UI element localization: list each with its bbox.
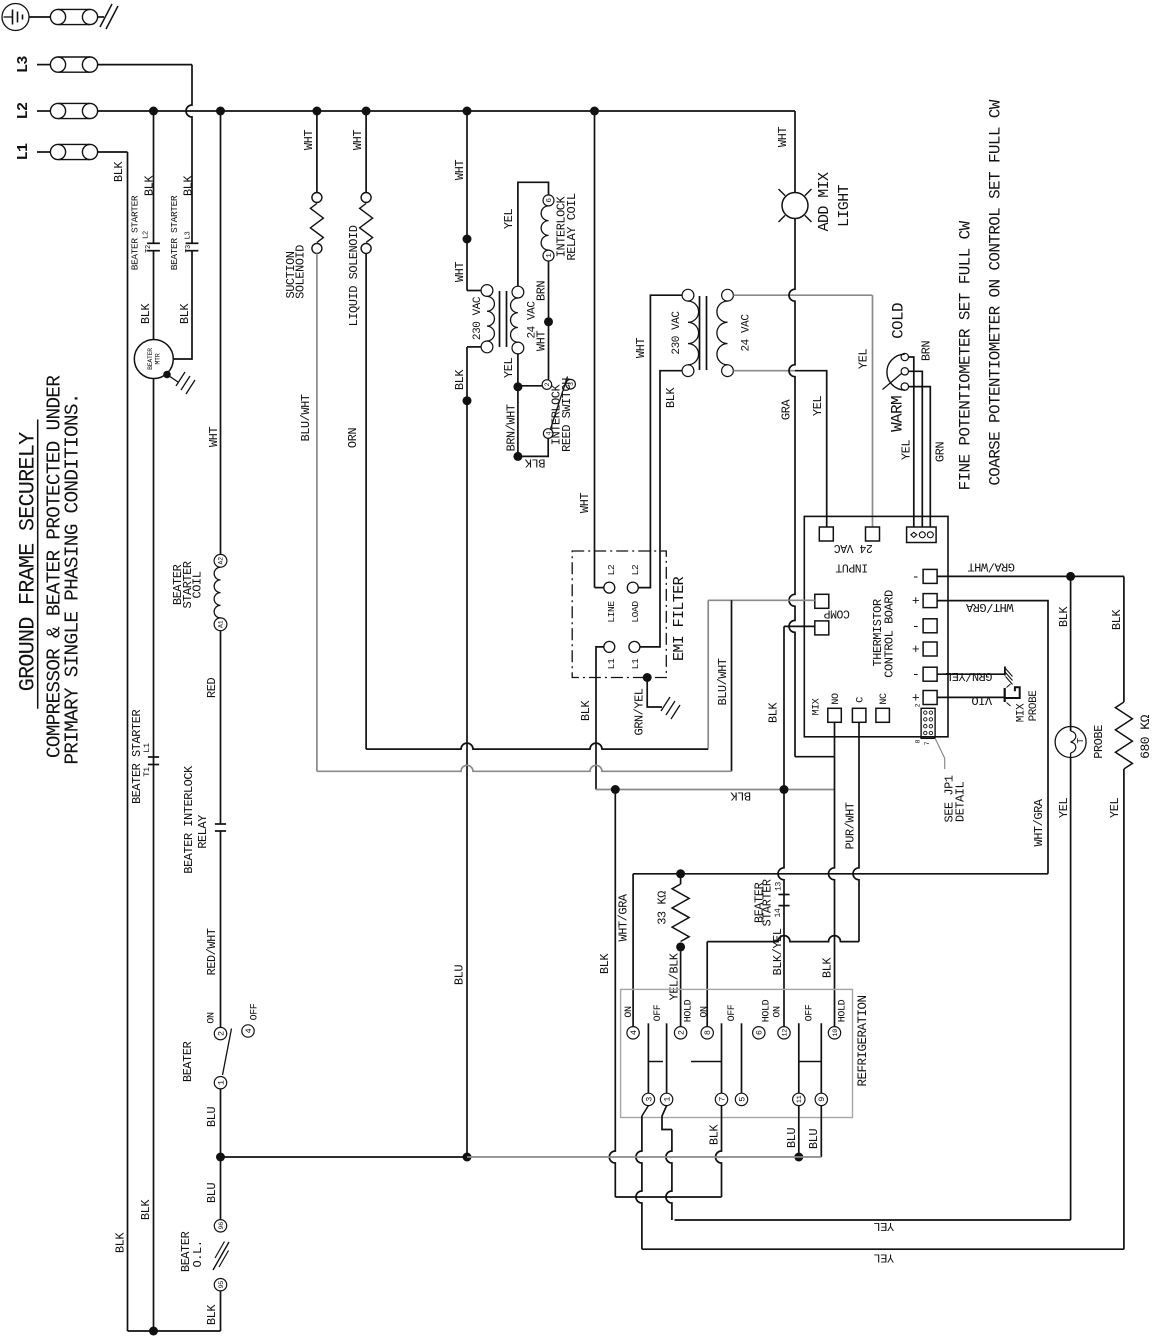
refrigeration sw3 contact bar	[800, 1061, 822, 1063]
refrigeration sw2 bottom terminal 7	[715, 1093, 727, 1105]
node T1 drop	[463, 235, 472, 244]
wire 9 to rail	[820, 1106, 822, 1157]
svg-text:BLU/WHT: BLU/WHT	[716, 658, 730, 705]
refrigeration switch enclosure	[621, 989, 853, 1117]
wire BLK/YEL to refrigeration 12	[778, 790, 784, 1027]
node bus-T1	[463, 107, 472, 116]
JP1 connector	[921, 708, 935, 738]
reed switch terminal 3	[566, 379, 576, 389]
wire terminal 1 drop to probe rail	[662, 1106, 672, 1130]
svg-text:BRN: BRN	[920, 341, 934, 361]
wire T2 secondary bottom GRA	[733, 370, 795, 372]
wire bus corner to add mix light	[794, 111, 796, 193]
svg-text:YEL: YEL	[502, 358, 516, 378]
wire switch drop	[609, 790, 615, 1198]
wire down to terminal 4	[632, 874, 634, 1027]
liquid solenoid terminal	[361, 193, 371, 203]
svg-text:WHT: WHT	[535, 331, 549, 351]
svg-text:-: -	[912, 667, 919, 682]
wire plus terminal WHT/GRA	[937, 601, 1048, 874]
svg-text:-: -	[912, 569, 919, 584]
svg-text:7: 7	[924, 741, 931, 745]
node rail to switch drop	[611, 785, 620, 794]
svg-text:GRN/YEL: GRN/YEL	[633, 688, 647, 735]
svg-text:14: 14	[774, 908, 783, 917]
wire 680K drop	[1123, 576, 1125, 702]
beater motor M1	[134, 340, 173, 379]
wire 7 to off rail	[716, 1106, 722, 1197]
svg-text:OFF: OFF	[653, 1004, 664, 1021]
pot terminal wiper	[901, 368, 908, 375]
svg-text:PROBE: PROBE	[1092, 725, 1106, 759]
board terminal OUT5 -	[923, 667, 937, 681]
transformer T2 secondary winding 24VAC	[717, 301, 728, 365]
svg-text:VIO: VIO	[972, 693, 992, 707]
transformer T1 primary terminal top	[481, 285, 493, 297]
fuse F1	[58, 143, 90, 145]
wire pot wiper	[909, 371, 923, 527]
wire 11 to rail	[798, 1106, 800, 1157]
wire into L2 LINE	[595, 587, 604, 589]
transformer T2 secondary terminal bottom	[722, 365, 734, 377]
svg-text:WHT: WHT	[776, 127, 790, 147]
beater overload terminal 95	[214, 1279, 226, 1291]
wire L2 to fuse	[37, 110, 51, 112]
wire suction solenoid BLU/WHT down	[316, 253, 318, 771]
refrigeration sw1 bottom terminal 3	[642, 1093, 654, 1105]
chassis ground at EMI	[661, 697, 670, 711]
suction solenoid terminal 2	[312, 243, 322, 253]
refrigeration sw3 pole wires	[798, 1023, 800, 1093]
svg-text:BLK: BLK	[139, 1199, 153, 1220]
beater overload element	[213, 1242, 229, 1270]
wire BLK to probe	[1070, 576, 1072, 728]
board terminal OUT6 +	[923, 691, 937, 705]
svg-text:WHT: WHT	[351, 130, 365, 150]
svg-text:BLK: BLK	[112, 161, 126, 182]
transformer T1 secondary terminal bottom	[512, 342, 524, 354]
refrigeration sw1 pole wires	[647, 1023, 649, 1093]
wire relay coil to reed switch	[548, 261, 550, 380]
wire BLU/WHT rail	[317, 765, 732, 771]
svg-text:96: 96	[218, 1222, 226, 1230]
wire motor to chassis	[167, 375, 178, 383]
svg-text:YEL: YEL	[1057, 798, 1071, 818]
refrigeration sw2 HOLD terminal 6	[753, 1027, 765, 1039]
svg-text:1: 1	[216, 1080, 226, 1085]
wire 33K to terminal 2	[680, 947, 682, 1027]
transformer T1 primary terminal bottom	[481, 341, 493, 353]
svg-text:BLU: BLU	[785, 1128, 799, 1148]
refrigeration sw2 ON terminal 8	[701, 1027, 713, 1039]
svg-text:BLK: BLK	[143, 175, 157, 196]
svg-text:+: +	[912, 642, 920, 657]
wire bus to transformer T1	[466, 111, 468, 291]
svg-text:A2: A2	[218, 557, 225, 565]
wire L1 to fuse	[37, 151, 51, 153]
svg-text:WARM: WARM	[888, 396, 906, 432]
refrigeration BLU rail left	[221, 1156, 468, 1158]
svg-text:BLK: BLK	[664, 387, 678, 408]
beater overload terminal 96	[214, 1220, 226, 1232]
svg-text:WHT: WHT	[578, 493, 592, 513]
JP1 leader line	[935, 738, 945, 769]
svg-text:T1: T1	[142, 767, 152, 777]
node reed 4 wire	[513, 452, 522, 461]
board terminal MIX NO	[828, 708, 842, 722]
svg-text:BEATER STARTER: BEATER STARTER	[130, 195, 141, 270]
wire bus to T2 contact	[153, 111, 155, 244]
wire node to overload	[220, 1157, 222, 1219]
fuse F3	[58, 56, 90, 58]
svg-text:BLK: BLK	[598, 953, 612, 974]
wire purwht rail to ON 8	[707, 936, 859, 942]
svg-text:L2: L2	[142, 231, 150, 239]
wire L1 BLK down left side	[127, 152, 129, 1331]
transformer T2 secondary terminal top	[722, 289, 734, 301]
wire T2 primary bottom to L1 LOAD	[640, 371, 682, 647]
wire 680K YEL rail	[642, 1248, 1124, 1250]
svg-text:L2: L2	[630, 564, 641, 575]
svg-text:PUR/WHT: PUR/WHT	[844, 802, 858, 849]
svg-text:10: 10	[832, 1029, 840, 1037]
svg-text:L1: L1	[142, 743, 152, 753]
svg-text:YEL: YEL	[811, 396, 825, 416]
transformer T1 secondary terminal top	[512, 286, 524, 298]
wire switch to node	[220, 1089, 222, 1157]
resistor 33K	[680, 874, 682, 884]
refrigeration sw3 bottom terminal 11	[793, 1093, 805, 1105]
liquid solenoid coil	[360, 204, 373, 243]
svg-text:COIL: COIL	[190, 571, 204, 598]
node 33K bottom	[676, 942, 685, 951]
refrigeration sw2 pole wires	[721, 1023, 723, 1093]
beater starter coil terminal A1	[214, 618, 227, 631]
beater switch terminal 1	[214, 1077, 226, 1089]
node rail 11	[794, 1153, 803, 1162]
wire T1 secondary top to relay coil	[518, 182, 549, 286]
svg-text:BEATER: BEATER	[181, 1042, 195, 1083]
thermistor control board outline	[804, 516, 948, 736]
svg-text:HOLD: HOLD	[683, 999, 694, 1022]
svg-text:33 KΩ: 33 KΩ	[656, 891, 670, 925]
wire plus VIO to mix probe	[937, 696, 1005, 698]
wire L1 fuse to corner	[98, 151, 128, 153]
liquid solenoid terminal 2	[361, 243, 371, 253]
wire T2 secondary top WHT to board	[733, 294, 872, 296]
svg-text:BLK: BLK	[205, 1304, 219, 1325]
svg-text:+: +	[912, 594, 920, 609]
refrigeration sw3 ON terminal 12	[778, 1027, 790, 1039]
svg-text:YEL: YEL	[1108, 798, 1122, 818]
suction solenoid terminal	[312, 193, 322, 203]
svg-text:BLU/WHT: BLU/WHT	[299, 394, 313, 441]
wire bus to liquid solenoid	[365, 111, 367, 193]
refrigeration sw1 bottom terminal 1	[660, 1093, 672, 1105]
svg-text:WHT/GRA: WHT/GRA	[965, 600, 1013, 614]
svg-text:+: +	[912, 691, 920, 706]
pot terminal cold	[901, 353, 908, 360]
chassis ground GRN/YEL	[1004, 667, 1006, 676]
svg-text:1: 1	[662, 1097, 672, 1102]
svg-text:24 VAC: 24 VAC	[740, 314, 752, 352]
svg-text:GROUND FRAME SECURELY: GROUND FRAME SECURELY	[15, 432, 40, 691]
beater starter coil winding	[214, 567, 220, 618]
svg-text:95: 95	[218, 1281, 226, 1289]
refrigeration sw3 HOLD terminal 10	[828, 1027, 840, 1039]
node beater-refrigeration	[216, 1153, 225, 1162]
node motor ground	[163, 371, 171, 379]
wire fuse to frame break	[98, 16, 104, 18]
EMI terminal L2 LOAD	[627, 582, 638, 593]
svg-text:BLK: BLK	[708, 1124, 722, 1145]
frame connection symbol	[100, 4, 112, 27]
node reed wire	[544, 317, 553, 326]
wire lamp down to mix contact	[789, 219, 795, 757]
svg-text:L1: L1	[15, 143, 32, 160]
svg-text:WHT/GRA: WHT/GRA	[617, 893, 631, 941]
beater starter contact T3	[186, 242, 199, 244]
wire A1 down to interlock relay	[220, 631, 222, 824]
svg-text:BLK: BLK	[182, 175, 196, 196]
wire probe YEL down	[1070, 758, 1072, 1221]
wire pot warm	[909, 387, 931, 527]
beater starter contact L1T1	[148, 756, 159, 758]
svg-text:BEATER: BEATER	[147, 348, 154, 370]
node bus-suction	[312, 107, 321, 116]
bottom rail wire	[128, 1330, 221, 1332]
svg-text:COMP: COMP	[824, 607, 850, 620]
wire BLK down to hold 10	[829, 757, 835, 1027]
chassis ground at motor	[176, 372, 185, 386]
svg-text:YEL/BLK: YEL/BLK	[668, 952, 682, 1000]
wire COMP2	[784, 625, 815, 627]
transformer T2 primary winding 230VAC	[688, 301, 699, 365]
wire ORN rail to comp	[366, 743, 708, 749]
wire bus to EMI L2 LINE	[594, 111, 596, 588]
wire relay to beater switch	[220, 831, 222, 1027]
svg-text:RED/WHT: RED/WHT	[205, 928, 219, 975]
svg-text:LIQUID SOLENOID: LIQUID SOLENOID	[347, 225, 361, 326]
node bus-T2drop	[149, 107, 158, 116]
svg-text:BLK: BLK	[178, 303, 192, 324]
svg-text:OFF: OFF	[804, 1004, 815, 1021]
wire probe YEL rail	[675, 1219, 1071, 1221]
L2 bus wire	[98, 110, 795, 112]
svg-text:WHT: WHT	[453, 160, 467, 180]
svg-text:C: C	[855, 697, 866, 703]
wire 680K YEL down	[1123, 769, 1125, 1249]
wire EMI ground stub GRN/YEL	[647, 678, 662, 708]
svg-text:4: 4	[244, 1028, 254, 1033]
svg-text:OFF: OFF	[727, 1004, 738, 1021]
wire to NO terminal corner	[795, 756, 835, 758]
svg-text:RELAY: RELAY	[196, 815, 210, 849]
svg-text:L3: L3	[15, 56, 32, 73]
svg-text:STARTER: STARTER	[761, 879, 775, 926]
svg-text:BLK: BLK	[1110, 609, 1124, 630]
wire T3 to motor	[173, 251, 192, 360]
svg-text:A1: A1	[218, 620, 225, 628]
EMI terminal L1 LINE	[604, 641, 615, 652]
svg-text:8: 8	[915, 739, 922, 743]
svg-text:YEL: YEL	[502, 209, 516, 229]
svg-text:BLK: BLK	[453, 369, 467, 390]
node probe net	[1066, 572, 1075, 581]
refrigeration sw2 bottom terminal 5	[735, 1093, 747, 1105]
EMI terminal L2 LINE	[604, 582, 615, 593]
transformer T2 primary terminal top	[682, 289, 694, 301]
refrigeration sw1 contact bar	[648, 1061, 663, 1063]
beater starter coil terminal A2	[214, 554, 227, 567]
wire terminal 3 to YEL riser	[642, 1106, 649, 1116]
svg-text:BLK: BLK	[139, 303, 153, 324]
board terminal OUT1 -	[923, 569, 937, 583]
svg-text:LOAD: LOAD	[630, 601, 641, 623]
wire up to NO terminal	[834, 722, 836, 757]
svg-text:BRN/WHT: BRN/WHT	[505, 404, 519, 451]
board terminal MIX C	[852, 708, 866, 722]
svg-text:LIGHT: LIGHT	[836, 184, 853, 227]
wire down to 24VAC input	[872, 295, 874, 527]
svg-text:YEL: YEL	[900, 440, 914, 460]
svg-text:5: 5	[737, 1097, 747, 1102]
node BLU refrigeration rail	[463, 1153, 472, 1162]
board terminal MIX NC	[876, 708, 890, 722]
svg-text:DETAIL: DETAIL	[954, 782, 968, 823]
wire node to reed 2	[518, 385, 542, 387]
svg-text:BLU: BLU	[453, 965, 467, 985]
mix probe element	[1004, 688, 1006, 702]
svg-text:REED SWITCH: REED SWITCH	[560, 378, 574, 452]
wire L3 drop with bus hop	[186, 65, 192, 244]
svg-text:L2: L2	[606, 564, 617, 575]
svg-text:WHT: WHT	[302, 130, 316, 150]
svg-text:SOLENOID: SOLENOID	[294, 245, 308, 299]
svg-text:L3: L3	[184, 232, 192, 240]
wire minus GRN/YEL to chassis	[937, 673, 1005, 675]
board terminal OUT3 -	[923, 619, 937, 633]
svg-text:ORN: ORN	[346, 428, 360, 448]
transformer T1 secondary winding 24VAC	[511, 298, 518, 342]
refrigeration sw2 contact bar	[691, 1061, 722, 1063]
svg-text:WHT: WHT	[634, 338, 648, 358]
svg-text:4: 4	[629, 1030, 639, 1035]
resistor 680K	[1115, 702, 1132, 769]
node bus-liquid	[362, 107, 371, 116]
wire to T1 primary top	[467, 290, 481, 292]
svg-text:PRIMARY SINGLE PHASING CONDITI: PRIMARY SINGLE PHASING CONDITIONS.	[62, 393, 84, 764]
wire minus terminal to probe net	[937, 575, 1124, 577]
svg-text:WHT: WHT	[453, 262, 467, 282]
svg-text:OFF: OFF	[249, 1003, 260, 1020]
svg-text:ON: ON	[699, 1006, 710, 1018]
svg-text:BEATER STARTER: BEATER STARTER	[130, 710, 144, 804]
wire T1 secondary bottom down	[517, 354, 519, 457]
transformer T1 primary winding 230VAC	[487, 296, 494, 341]
svg-text:BLK: BLK	[821, 957, 835, 978]
svg-text:YEL: YEL	[874, 1250, 894, 1264]
svg-text:11: 11	[796, 1095, 804, 1103]
wire light rail to refrigeration	[633, 873, 1048, 875]
transformer T2 primary terminal bottom	[682, 365, 694, 377]
svg-text:BLK: BLK	[730, 788, 751, 802]
svg-text:REFRIGERATION: REFRIGERATION	[856, 995, 870, 1086]
wire L3 fuse to T3 drop	[98, 64, 192, 66]
board terminal OUT2 +	[923, 594, 937, 608]
wire T1 down BLK	[466, 347, 468, 401]
svg-text:BLU: BLU	[205, 1183, 219, 1203]
svg-text:HOLD: HOLD	[761, 999, 772, 1022]
fuse F2	[58, 102, 90, 104]
svg-text:T: T	[1075, 738, 1086, 744]
wire pot cold BRN	[909, 357, 914, 527]
svg-text:T2: T2	[145, 245, 153, 253]
suction solenoid coil	[310, 204, 323, 243]
svg-text:RELAY COIL: RELAY COIL	[565, 193, 579, 260]
wire COMP1 from solenoids	[708, 599, 815, 601]
svg-text:BLK: BLK	[524, 455, 545, 469]
reed switch blade	[551, 377, 568, 430]
beater interlock relay contact	[215, 823, 226, 825]
svg-text:12: 12	[781, 1029, 789, 1037]
svg-text:BLU: BLU	[807, 1129, 821, 1149]
svg-text:ADD MIX: ADD MIX	[816, 172, 833, 231]
pot terminal warm	[901, 383, 908, 390]
protective earth terminal	[2, 4, 29, 31]
node below T1	[463, 396, 472, 405]
refrigeration sw1 ON terminal 4	[627, 1027, 639, 1039]
wire off rail	[615, 1196, 721, 1198]
beater switch terminal 4 OFF	[242, 1025, 254, 1037]
svg-text:CONTROL BOARD: CONTROL BOARD	[883, 590, 897, 678]
interlock relay coil terminal 6	[543, 195, 554, 206]
node bus-coil	[216, 107, 225, 116]
svg-text:LINE: LINE	[606, 601, 617, 623]
svg-text:GRA/WHT: GRA/WHT	[968, 559, 1015, 573]
beater switch blade	[223, 1029, 232, 1076]
svg-text:L2: L2	[15, 102, 32, 119]
warm-cold potentiometer body	[887, 354, 905, 390]
svg-text:BLK: BLK	[767, 702, 781, 723]
svg-text:WHT: WHT	[207, 427, 221, 447]
beater starter contact T2	[147, 242, 160, 244]
board terminal COMP2	[815, 621, 829, 635]
svg-text:2: 2	[216, 1031, 226, 1036]
pot connector J2	[907, 527, 937, 543]
reed switch terminal 4	[543, 429, 553, 439]
svg-text:BLK: BLK	[114, 1232, 128, 1253]
svg-text:MIX: MIX	[1015, 703, 1027, 722]
wire BLK distribution rail	[596, 789, 835, 791]
wire down to terminal 8	[706, 942, 708, 1027]
EMI terminal L1 LOAD	[629, 641, 640, 652]
svg-text:ON: ON	[772, 1006, 783, 1018]
svg-text:BRN: BRN	[535, 281, 549, 301]
svg-text:8: 8	[703, 1030, 713, 1035]
beater switch terminal 2 ON	[214, 1027, 226, 1039]
svg-text:230 VAC: 230 VAC	[671, 311, 683, 355]
node secondary to reed 2	[513, 382, 522, 391]
svg-text:EMI FILTER: EMI FILTER	[671, 576, 688, 661]
svg-text:230 VAC: 230 VAC	[472, 296, 484, 340]
wire BLU/WHT riser	[731, 600, 733, 771]
svg-text:WHT/GRA: WHT/GRA	[1032, 798, 1046, 846]
svg-text:GRA: GRA	[780, 399, 794, 420]
wire liquid solenoid ORN down	[365, 253, 367, 749]
node rail to 33K	[676, 869, 685, 878]
node rail to comp drop	[780, 785, 789, 794]
